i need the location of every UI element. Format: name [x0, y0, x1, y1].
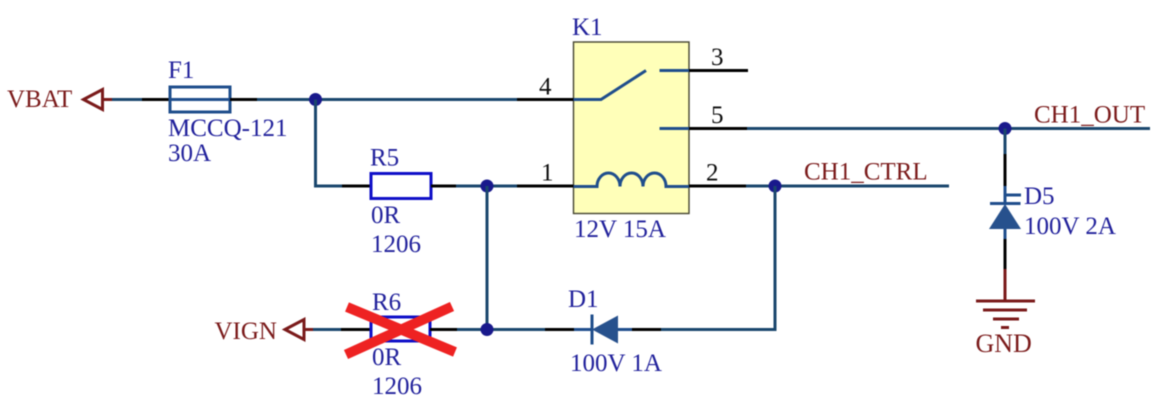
- port VIGN symbol: [285, 320, 314, 340]
- diode D1 cathode bar: [591, 315, 594, 345]
- diode D5 triangle: [989, 204, 1021, 229]
- wire VBAT to F1: [112, 98, 143, 101]
- fuse F1 body: [170, 87, 230, 112]
- svg-text:GND: GND: [976, 329, 1032, 358]
- diode D5 cathode stub: [1004, 186, 1007, 204]
- relay K1 coil: [574, 173, 690, 187]
- relay K1 pin 5: [689, 127, 747, 130]
- fuse F1 pin 2: [230, 98, 258, 101]
- diode D5 anode stub: [1004, 229, 1007, 240]
- resistor R6 pin 2: [430, 328, 458, 331]
- relay K1 pin 1: [517, 185, 574, 188]
- svg-text:2: 2: [706, 160, 719, 187]
- wire branch down to R5 row: [316, 100, 344, 187]
- diode D5 pin (anode side): [1004, 239, 1007, 270]
- relay K1 pin 3: [689, 69, 748, 72]
- resistor R5 pin 2: [431, 185, 457, 188]
- svg-text:1206: 1206: [371, 231, 421, 258]
- svg-text:MCCQ-121: MCCQ-121: [168, 115, 287, 142]
- svg-text:0R: 0R: [371, 202, 401, 229]
- relay K1 switch common arm: [574, 71, 647, 100]
- svg-text:30A: 30A: [168, 140, 211, 167]
- svg-text:1206: 1206: [372, 373, 422, 400]
- relay K1 pin 4: [517, 98, 574, 101]
- relay K1 body: [574, 42, 690, 214]
- fuse F1 pin 1: [142, 98, 170, 101]
- svg-text:D1: D1: [568, 286, 599, 313]
- diode D5 label tick: [1004, 194, 1021, 197]
- resistor R5 body: [371, 174, 431, 199]
- junction at VBAT branch: [309, 93, 322, 106]
- ground stub wire: [1004, 269, 1007, 301]
- svg-text:12V 15A: 12V 15A: [574, 216, 666, 243]
- svg-text:3: 3: [711, 44, 724, 71]
- svg-text:VIGN: VIGN: [215, 318, 278, 345]
- svg-text:1: 1: [541, 160, 554, 187]
- svg-text:0R: 0R: [372, 344, 402, 371]
- svg-text:K1: K1: [572, 14, 603, 41]
- resistor R5 pin 1: [342, 185, 371, 188]
- junction R5 output: [481, 180, 494, 193]
- svg-text:100V 1A: 100V 1A: [570, 350, 662, 377]
- wire F1 to relay pin 4: [257, 98, 518, 101]
- svg-text:R6: R6: [372, 289, 401, 316]
- svg-text:CH1_OUT: CH1_OUT: [1034, 102, 1145, 129]
- wire R6 to D1: [457, 328, 546, 331]
- svg-text:CH1_CTRL: CH1_CTRL: [804, 159, 928, 186]
- svg-text:5: 5: [711, 102, 724, 129]
- svg-text:VBAT: VBAT: [7, 86, 72, 113]
- wire pin 2 to CH1_CTRL: [746, 185, 949, 188]
- diode D5 cathode bar: [990, 202, 1021, 205]
- relay K1 switch contact segment: [660, 69, 690, 72]
- svg-text:F1: F1: [168, 57, 194, 84]
- wire branch down to D1 row: [486, 186, 489, 330]
- junction D1 row branch: [481, 323, 494, 336]
- diode D1 pin (anode side): [632, 328, 661, 331]
- resistor R6 pin 1: [341, 328, 371, 331]
- diode D1 anode stub: [618, 328, 632, 331]
- wire branch down from CH1_CTRL to D1 row: [660, 186, 775, 330]
- diode D1 cathode stub: [574, 328, 592, 331]
- diode D1 pin (cathode side): [545, 328, 574, 331]
- relay K1 pin 2: [689, 185, 746, 188]
- svg-text:4: 4: [539, 74, 552, 101]
- diode D1 triangle: [592, 316, 618, 344]
- wire VIGN to R6: [313, 328, 342, 331]
- junction CH1_OUT / D5: [999, 122, 1012, 135]
- junction CH1_CTRL branch: [769, 180, 782, 193]
- wire CH1_OUT junction down to D5: [1004, 129, 1007, 156]
- diode D5 pin (cathode side): [1004, 154, 1007, 186]
- relay K1 pin 5 inner stub: [660, 127, 690, 130]
- wire pin 5 to CH1_OUT: [747, 127, 1150, 130]
- resistor R6 body: [371, 317, 430, 341]
- wire R5 to relay pin 1: [456, 185, 518, 188]
- ground symbol bars: [976, 301, 1035, 328]
- port VBAT symbol: [84, 90, 113, 110]
- svg-text:R5: R5: [370, 145, 399, 172]
- svg-text:100V 2A: 100V 2A: [1024, 213, 1116, 240]
- svg-text:D5: D5: [1024, 183, 1055, 210]
- no-fit cross over R6: [346, 307, 455, 355]
